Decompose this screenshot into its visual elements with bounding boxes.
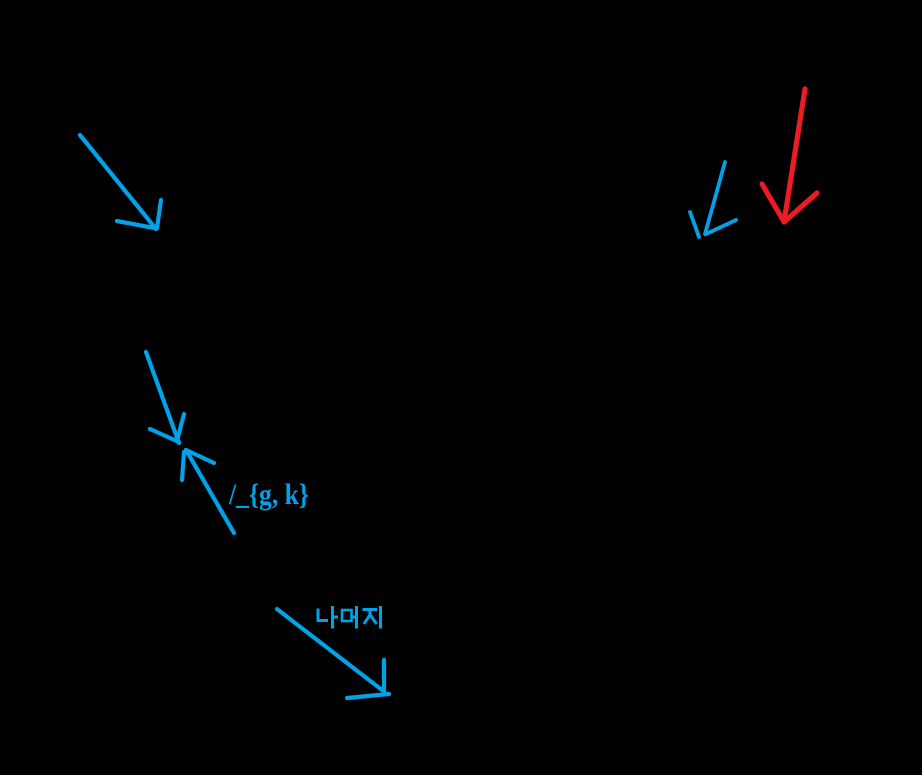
나 : vowel A (331, 606, 334, 629)
arrow D (blue up-left arrow) (182, 450, 234, 533)
머 : consonant MIEUM (box) (342, 610, 352, 621)
arrow E (bottom blue down-right arrow) (277, 609, 389, 698)
svg-text:/_{g, k}: /_{g, k} (228, 478, 309, 511)
나 : consonant NIEUN (318, 609, 328, 621)
지 : consonant JIEUT (363, 608, 378, 611)
머 : vowel EO (353, 616, 357, 619)
arrow A (top-left blue down-right arrow) (80, 135, 161, 229)
label 나머지 (drawn strokes) (318, 606, 381, 629)
지 : vowel I (379, 606, 382, 629)
arrow B (right small blue down arrow) (690, 162, 736, 237)
arrow C (middle blue down arrow) (146, 352, 184, 443)
arrow R (red down arrow) (762, 89, 817, 222)
